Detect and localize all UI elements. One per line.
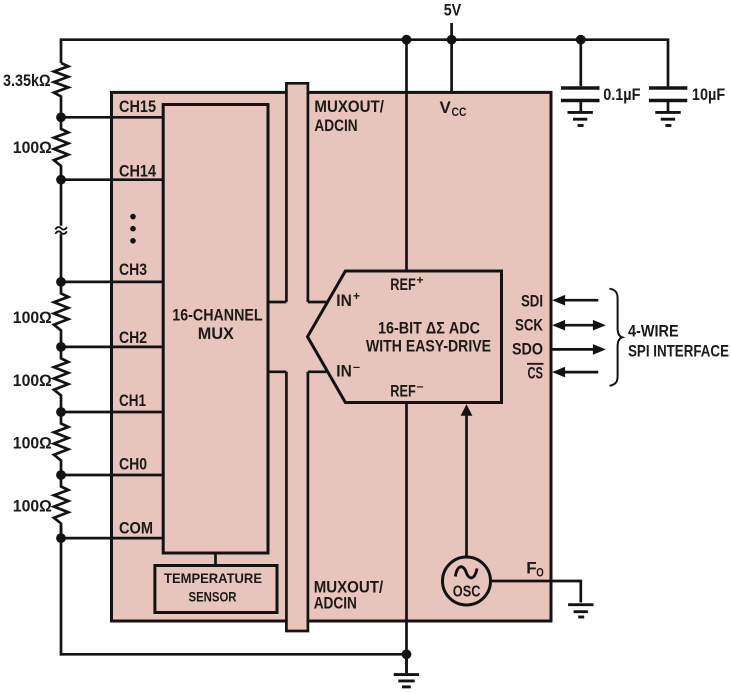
break squiggle <box>55 227 67 234</box>
ellipsis dots channel list <box>130 214 136 244</box>
node dot REF+ rail <box>402 35 412 45</box>
svg-text:–: – <box>353 359 360 373</box>
svg-text:TEMPERATURE: TEMPERATURE <box>164 570 262 586</box>
IC body U1 (16-bit ADC with mux) <box>112 92 552 621</box>
ground symbol FO <box>568 605 593 617</box>
capacitor C2 10uF <box>649 88 687 111</box>
SCK arrow <box>552 320 606 331</box>
svg-text:CH2: CH2 <box>119 328 147 347</box>
mux box <box>163 105 268 554</box>
svg-text:OSC: OSC <box>453 583 481 600</box>
svg-text:100Ω: 100Ω <box>13 138 52 157</box>
svg-text:SPI INTERFACE: SPI INTERFACE <box>628 342 729 361</box>
resistor R6 100 CH0-COM <box>54 475 68 538</box>
node dot CH14 <box>56 175 66 185</box>
REF+ wire from 5V rail <box>405 40 408 271</box>
svg-text:10µF: 10µF <box>692 85 725 104</box>
bottom ground rail wire <box>61 526 407 654</box>
node dot CH3 <box>56 277 66 287</box>
node dot COM <box>56 533 66 543</box>
svg-text:IN: IN <box>336 291 352 310</box>
svg-text:4-WIRE: 4-WIRE <box>628 321 679 340</box>
arrowhead up to ADC <box>461 404 473 415</box>
svg-text:100Ω: 100Ω <box>13 308 52 327</box>
svg-text:CH1: CH1 <box>119 391 146 410</box>
wire OSC to FO ground <box>491 581 581 603</box>
node dot 0.1uF rail <box>576 35 586 45</box>
svg-text:MUXOUT/: MUXOUT/ <box>314 97 384 116</box>
wire break to CH3 <box>60 234 63 282</box>
wire stub chimney to ADC IN+ <box>308 301 328 304</box>
SDO arrow <box>551 344 606 355</box>
svg-text:SENSOR: SENSOR <box>189 589 237 605</box>
SPI brace <box>610 289 623 386</box>
node dot CH2 <box>56 342 66 352</box>
svg-text:CH0: CH0 <box>119 455 147 474</box>
sine glyph <box>455 567 477 578</box>
resistor R4 100 CH2-CH1 <box>54 347 68 412</box>
svg-text:IN: IN <box>336 362 352 381</box>
svg-text:0.1µF: 0.1µF <box>603 85 640 104</box>
MUXOUT/ADCIN chimney top fill <box>288 85 307 303</box>
wire OSC to REF- arrow <box>465 414 468 557</box>
svg-text:REF: REF <box>390 275 416 294</box>
MUXOUT/ADCIN chimney top outline <box>286 83 308 302</box>
node dot CH1 <box>56 407 66 417</box>
svg-text:F: F <box>526 558 536 577</box>
ground symbol C1 <box>568 112 593 125</box>
wire CH14 to break <box>60 180 63 226</box>
svg-text:CH15: CH15 <box>119 97 156 116</box>
wire CH14 <box>61 178 163 181</box>
svg-text:100Ω: 100Ω <box>13 496 52 515</box>
svg-text:CC: CC <box>452 105 467 119</box>
capacitor C1 0.1uF <box>561 40 600 111</box>
REF- wire to ground rail <box>405 403 408 655</box>
svg-text:MUX: MUX <box>198 324 235 343</box>
oscillator OSC circle <box>443 557 491 605</box>
svg-text:REF: REF <box>390 381 416 400</box>
svg-text:COM: COM <box>119 518 153 537</box>
MUXOUT/ADCIN chimney bottom outline <box>286 372 308 631</box>
svg-text:SDI: SDI <box>521 292 543 311</box>
SDI arrow <box>552 295 598 306</box>
wire stub mux to chimney IN- <box>268 370 286 373</box>
svg-text:V: V <box>440 98 452 117</box>
svg-text:100Ω: 100Ω <box>13 434 52 453</box>
svg-text:CH14: CH14 <box>119 162 156 181</box>
svg-text:ADCIN: ADCIN <box>314 116 357 135</box>
svg-text:O: O <box>536 565 544 579</box>
svg-text:SCK: SCK <box>515 315 544 334</box>
VCC wire <box>450 40 453 92</box>
top 5V rail wire <box>61 40 668 87</box>
temperature sensor box <box>155 566 277 613</box>
svg-text:CH3: CH3 <box>119 260 147 279</box>
svg-text:+: + <box>353 289 360 303</box>
node dot CH0 <box>56 470 66 480</box>
node dot 5V/VCC <box>447 35 457 45</box>
resistor R1 3.35k <box>54 63 68 117</box>
node dot bottom rail REF- <box>402 649 412 659</box>
ground symbol C2 <box>655 112 680 125</box>
svg-text:SDO: SDO <box>512 340 543 359</box>
wire mux to temperature sensor <box>214 553 217 566</box>
ground symbol bottom center <box>394 654 419 687</box>
wire CH0 <box>61 474 163 477</box>
5V stub wire <box>450 23 453 40</box>
svg-text:WITH EASY-DRIVE: WITH EASY-DRIVE <box>366 337 491 356</box>
ADC pentagon U1a <box>308 271 502 403</box>
svg-text:5V: 5V <box>444 0 462 19</box>
wire stub chimney to ADC IN- <box>308 370 329 373</box>
resistor R3 100 CH3-CH2 <box>54 282 68 347</box>
svg-text:+: + <box>417 273 424 287</box>
svg-text:16-CHANNEL: 16-CHANNEL <box>172 305 262 324</box>
wire COM <box>61 537 163 540</box>
svg-text:100Ω: 100Ω <box>13 371 52 390</box>
svg-text:CS: CS <box>528 364 544 383</box>
wire stub mux to chimney IN+ <box>268 301 286 304</box>
resistor R2 100 CH15-CH14 <box>54 117 68 179</box>
CS arrow <box>552 367 598 378</box>
resistor R5 100 CH1-CH0 <box>54 412 68 475</box>
svg-text:–: – <box>417 379 424 393</box>
svg-text:3.35kΩ: 3.35kΩ <box>3 71 51 90</box>
wire CH15 <box>61 116 163 119</box>
svg-text:ADCIN: ADCIN <box>314 594 357 613</box>
wire CH2 <box>61 346 163 349</box>
node dot CH15 <box>56 112 66 122</box>
wire CH3 <box>61 281 163 284</box>
wire CH1 <box>61 411 163 414</box>
svg-text:16-BIT ΔΣ ADC: 16-BIT ΔΣ ADC <box>378 318 480 337</box>
MUXOUT/ADCIN chimney bottom fill <box>288 372 307 630</box>
